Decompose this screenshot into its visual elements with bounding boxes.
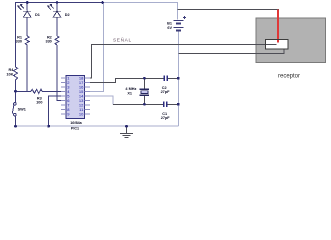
svg-text:6V: 6V [167,26,172,30]
svg-text:SW1: SW1 [18,108,26,112]
svg-text:330: 330 [45,39,51,43]
svg-text:27pF: 27pF [161,90,171,94]
svg-text:330: 330 [16,39,22,43]
svg-text:receptor: receptor [278,74,300,80]
svg-text:10: 10 [79,112,84,117]
svg-text:PIC1: PIC1 [71,126,79,130]
svg-text:100: 100 [36,100,42,104]
svg-text:16f84a: 16f84a [70,121,82,125]
svg-text:D1: D1 [35,13,40,17]
svg-text:X1: X1 [127,91,132,95]
svg-text:27pF: 27pF [161,116,171,120]
svg-text:B1: B1 [167,22,172,26]
svg-text:D2: D2 [65,13,70,17]
svg-text:SEÑAL: SEÑAL [113,36,132,43]
svg-text:10K: 10K [6,73,13,77]
